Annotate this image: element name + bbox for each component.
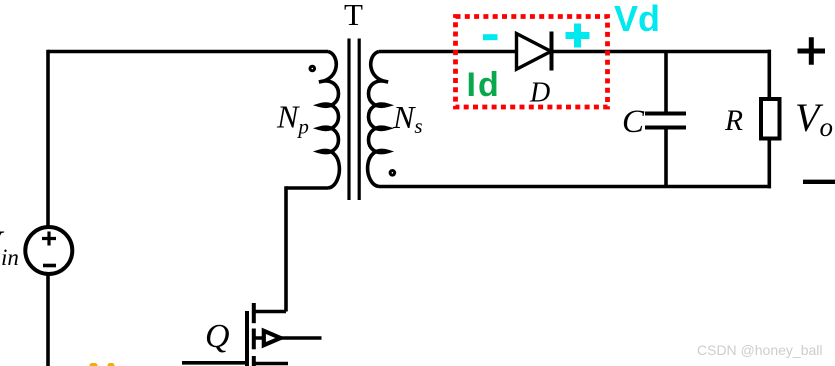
output plus sign (798, 37, 826, 65)
wire capacitor bottom stub (664, 128, 668, 187)
wire resistor bottom stub (767, 140, 771, 188)
cyan plus annotation (566, 24, 590, 48)
MOSFET Q source lead (254, 336, 322, 340)
wire diode cathode to output (551, 50, 771, 54)
svg-text:Vd: Vd (614, 0, 660, 39)
svg-text:Id: Id (467, 66, 501, 104)
MOSFET Q bottom lead (254, 362, 288, 366)
svg-text:T: T (344, 0, 363, 32)
plus mark inside source (42, 232, 56, 246)
minus mark inside source (43, 264, 56, 268)
svg-text:Ns: Ns (392, 99, 423, 138)
wire secondary bottom rail (379, 185, 771, 189)
svg-text:Vo: Vo (795, 95, 833, 142)
diode D triangle (517, 34, 552, 70)
voltage source Vin (25, 227, 72, 274)
transformer core line left (347, 39, 350, 201)
wire left vertical upper (corner to Vin source) (46, 50, 50, 228)
svg-text:R: R (724, 105, 743, 137)
svg-text:Np: Np (276, 99, 309, 139)
resistor R body (761, 99, 780, 139)
svg-text:CSDN @honey_ball: CSDN @honey_ball (697, 342, 823, 358)
wire primary bottom (winding to drain drop) (286, 186, 328, 190)
yellow annotation fragment left (90, 363, 98, 366)
transformer core line right (358, 39, 361, 201)
svg-text:C: C (622, 104, 645, 140)
primary winding Np (319, 52, 339, 189)
wire secondary top (winding to diode anode) (379, 50, 516, 54)
wire drain vertical (primary bottom down to MOSFET drain) (284, 186, 288, 311)
wire resistor top stub (767, 50, 771, 97)
polarity dot primary (310, 66, 315, 71)
diode D cathode bar (550, 32, 554, 71)
capacitor C top plate (645, 112, 686, 116)
cyan minus annotation (483, 34, 498, 40)
wire left vertical lower (Vin to bottom edge) (46, 274, 50, 366)
svg-text:Q: Q (205, 318, 230, 355)
svg-text:in: in (1, 245, 19, 270)
MOSFET Q gate bar (245, 311, 249, 366)
wire top-left horizontal (Vin+ to primary top) (48, 50, 328, 54)
polarity dot secondary (390, 171, 395, 176)
MOSFET Q body arrow (264, 331, 281, 345)
capacitor C bottom plate (645, 126, 686, 130)
output minus sign (803, 180, 835, 184)
red dotted measurement box (456, 17, 608, 108)
MOSFET Q channel segment bottom (252, 356, 256, 366)
wire gate lead (182, 361, 247, 365)
MOSFET Q channel segment middle (252, 329, 256, 350)
MOSFET Q channel segment top (252, 303, 256, 323)
yellow annotation fragment right (108, 363, 115, 366)
secondary winding Ns (368, 52, 388, 187)
svg-text:D: D (529, 78, 550, 109)
MOSFET Q drain lead (254, 310, 286, 314)
wire capacitor top stub (664, 52, 668, 114)
